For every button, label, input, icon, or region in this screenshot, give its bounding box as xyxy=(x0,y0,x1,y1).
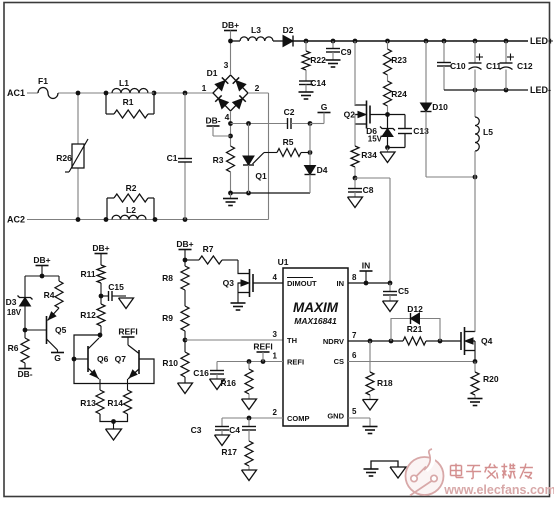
svg-text:REFI: REFI xyxy=(253,342,272,352)
svg-text:TH: TH xyxy=(287,336,297,345)
svg-text:DB+: DB+ xyxy=(176,239,193,249)
svg-text:1: 1 xyxy=(202,83,207,93)
svg-text:Q7: Q7 xyxy=(115,354,127,364)
svg-text:18V: 18V xyxy=(7,308,22,317)
svg-text:R2: R2 xyxy=(126,183,137,193)
svg-text:R11: R11 xyxy=(80,269,95,279)
svg-text:IN: IN xyxy=(337,279,345,288)
svg-text:R8: R8 xyxy=(162,273,173,283)
svg-text:D10: D10 xyxy=(432,102,448,112)
svg-text:DB-: DB- xyxy=(205,116,220,126)
svg-text:C10: C10 xyxy=(450,61,466,71)
svg-text:CS: CS xyxy=(334,357,344,366)
svg-text:3: 3 xyxy=(224,60,229,70)
svg-text:R26: R26 xyxy=(56,153,72,163)
svg-text:NDRV: NDRV xyxy=(323,337,344,346)
svg-text:C3: C3 xyxy=(191,425,202,435)
svg-text:L2: L2 xyxy=(126,205,136,215)
svg-text:DB-: DB- xyxy=(17,369,32,379)
svg-text:AC2: AC2 xyxy=(7,215,25,225)
svg-text:Q2: Q2 xyxy=(344,110,356,120)
svg-text:MAX16841: MAX16841 xyxy=(294,316,337,326)
svg-text:C13: C13 xyxy=(413,126,429,136)
svg-text:R17: R17 xyxy=(221,447,237,457)
svg-text:IN: IN xyxy=(362,261,371,271)
svg-text:R6: R6 xyxy=(8,343,19,353)
svg-text:C5: C5 xyxy=(398,286,409,296)
svg-text:C2: C2 xyxy=(284,107,295,117)
svg-text:4: 4 xyxy=(225,112,230,122)
svg-text:Q3: Q3 xyxy=(223,278,235,288)
svg-text:R16: R16 xyxy=(220,378,236,388)
svg-text:Q1: Q1 xyxy=(255,171,267,181)
svg-text:5: 5 xyxy=(352,407,357,416)
svg-text:R24: R24 xyxy=(391,89,407,99)
svg-text:D12: D12 xyxy=(407,304,423,314)
svg-text:R7: R7 xyxy=(203,244,214,254)
svg-text:L3: L3 xyxy=(251,25,261,35)
svg-text:LED-: LED- xyxy=(530,85,551,95)
svg-text:D2: D2 xyxy=(283,25,294,35)
svg-text:DIMOUT: DIMOUT xyxy=(287,279,317,288)
svg-text:2: 2 xyxy=(255,83,260,93)
svg-text:AC1: AC1 xyxy=(7,88,25,98)
svg-text:GND: GND xyxy=(327,412,344,421)
svg-text:C4: C4 xyxy=(229,425,240,435)
svg-text:www.elecfans.com: www.elecfans.com xyxy=(443,483,554,497)
svg-text:3: 3 xyxy=(273,330,278,339)
svg-text:R9: R9 xyxy=(162,313,173,323)
svg-text:REFI: REFI xyxy=(118,327,137,337)
svg-text:C12: C12 xyxy=(517,61,533,71)
svg-text:R5: R5 xyxy=(283,137,294,147)
svg-text:R22: R22 xyxy=(310,55,326,65)
svg-text:R10: R10 xyxy=(162,358,178,368)
svg-text:R34: R34 xyxy=(361,150,377,160)
svg-text:2: 2 xyxy=(273,408,278,417)
svg-text:REFI: REFI xyxy=(287,358,304,367)
svg-text:LED+: LED+ xyxy=(530,36,553,46)
svg-text:L1: L1 xyxy=(119,78,129,88)
svg-text:L5: L5 xyxy=(483,127,493,137)
svg-text:R18: R18 xyxy=(377,378,393,388)
svg-text:COMP: COMP xyxy=(287,414,310,423)
svg-text:C8: C8 xyxy=(363,185,374,195)
svg-text:8: 8 xyxy=(352,273,357,282)
svg-text:D4: D4 xyxy=(317,165,328,175)
svg-text:U1: U1 xyxy=(278,257,289,267)
svg-text:R1: R1 xyxy=(123,97,134,107)
svg-text:R13: R13 xyxy=(80,398,96,408)
svg-text:R12: R12 xyxy=(80,310,96,320)
svg-text:C1: C1 xyxy=(167,153,178,163)
svg-text:R14: R14 xyxy=(107,398,123,408)
svg-text:C11: C11 xyxy=(486,61,501,71)
svg-text:C15: C15 xyxy=(108,282,124,292)
svg-text:1: 1 xyxy=(273,352,278,361)
svg-text:Q4: Q4 xyxy=(481,336,493,346)
svg-text:6: 6 xyxy=(352,351,357,360)
svg-text:C16: C16 xyxy=(193,368,209,378)
svg-text:R3: R3 xyxy=(213,155,224,165)
svg-text:G: G xyxy=(54,353,61,363)
svg-text:F1: F1 xyxy=(38,76,48,86)
svg-text:D1: D1 xyxy=(207,68,218,78)
svg-text:Q6: Q6 xyxy=(97,354,109,364)
svg-text:Q5: Q5 xyxy=(55,325,67,335)
svg-text:DB+: DB+ xyxy=(222,20,239,30)
svg-text:MAXIM: MAXIM xyxy=(293,300,339,315)
svg-text:R20: R20 xyxy=(483,374,499,384)
svg-text:C9: C9 xyxy=(341,47,352,57)
svg-text:R4: R4 xyxy=(44,290,55,300)
svg-text:D3: D3 xyxy=(6,297,17,307)
svg-text:DB+: DB+ xyxy=(33,255,50,265)
svg-text:R21: R21 xyxy=(407,324,423,334)
svg-text:7: 7 xyxy=(352,331,357,340)
svg-text:C14: C14 xyxy=(310,78,326,88)
svg-text:DB+: DB+ xyxy=(92,243,109,253)
svg-text:R23: R23 xyxy=(391,55,407,65)
svg-text:4: 4 xyxy=(273,273,278,282)
svg-text:G: G xyxy=(321,102,328,112)
svg-text:15V: 15V xyxy=(368,135,383,144)
